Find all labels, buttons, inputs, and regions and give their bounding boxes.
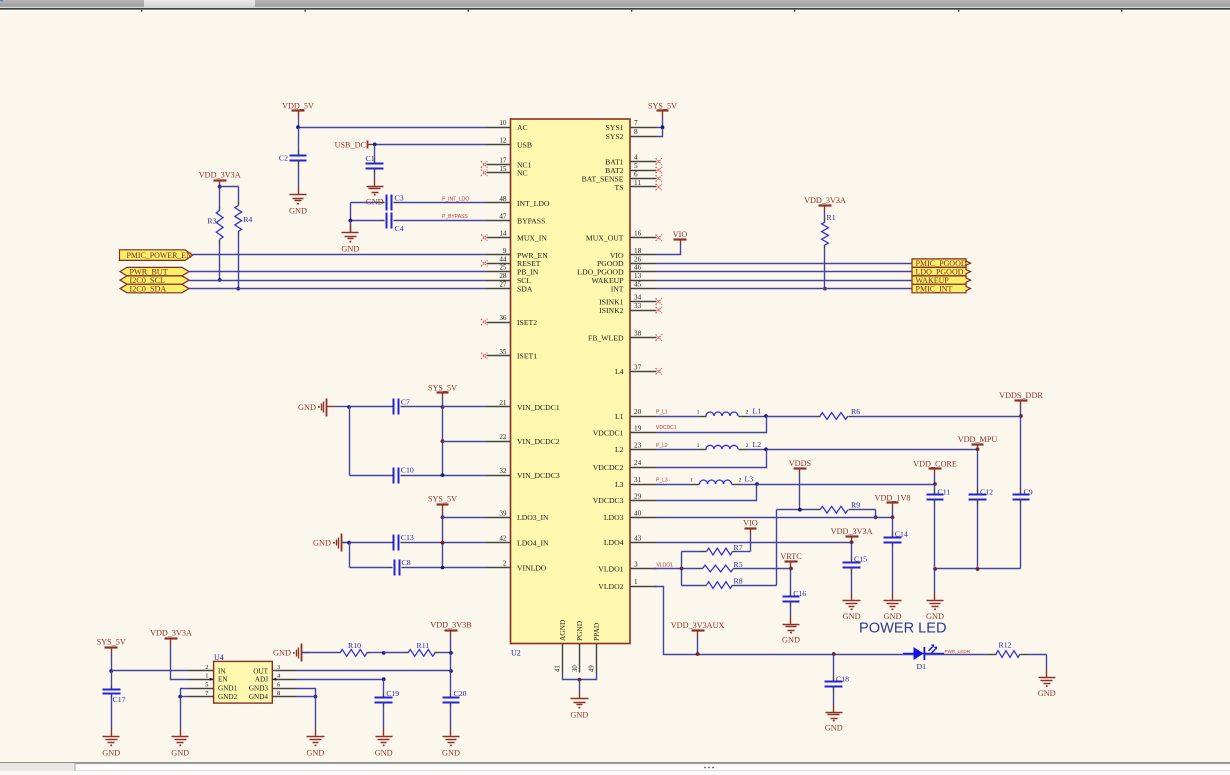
svg-text:C14: C14 <box>895 529 908 538</box>
capacitor C16 <box>783 569 807 617</box>
svg-text:AC: AC <box>517 123 528 132</box>
svg-text:VDCDC3: VDCDC3 <box>593 496 624 505</box>
svg-text:C12: C12 <box>980 487 993 496</box>
svg-text:VIN_DCDC2: VIN_DCDC2 <box>517 437 560 446</box>
svg-text:17: 17 <box>499 157 507 165</box>
wire WAKEUP to port <box>657 280 913 282</box>
svg-text:L2: L2 <box>753 440 762 449</box>
svg-text:L1: L1 <box>753 407 762 416</box>
svg-text:GND: GND <box>570 711 588 720</box>
svg-text:VDD_3V3B: VDD_3V3B <box>430 621 472 630</box>
svg-text:1: 1 <box>697 410 700 416</box>
net label P_BYPASS <box>442 214 468 220</box>
svg-text:USB: USB <box>517 140 532 149</box>
resistor R1 <box>822 212 836 289</box>
ground under C20 <box>442 729 460 758</box>
svg-text:C20: C20 <box>454 689 467 698</box>
resistor R5 <box>682 560 791 572</box>
U2 bottom pins AGND PGND PPAD <box>555 619 601 673</box>
ground under C15 <box>843 593 861 622</box>
wire L3 to VDD_CORE <box>757 484 935 486</box>
wire R9 to R8 vertical <box>776 510 778 586</box>
svg-text:P_BYPASS: P_BYPASS <box>442 214 468 220</box>
node junction R3/SCL <box>218 278 222 282</box>
wire PGOOD to port <box>657 263 913 265</box>
svg-text:L1: L1 <box>615 412 624 421</box>
inductor L3 <box>657 475 757 485</box>
svg-text:ISET2: ISET2 <box>517 318 537 327</box>
power VDD_3V3A bottom <box>150 629 192 680</box>
power VDD_1V8 <box>875 493 911 519</box>
resistor R4 <box>220 187 253 289</box>
svg-text:LDO3: LDO3 <box>604 513 624 522</box>
svg-text:15: 15 <box>499 165 507 173</box>
power VDD_3V3A mid <box>831 527 873 544</box>
ground under C3/C4 <box>341 221 359 254</box>
power VDD_5V <box>282 101 314 127</box>
svg-text:VLDO2: VLDO2 <box>598 582 623 591</box>
svg-text:1: 1 <box>690 478 693 484</box>
svg-text:C7: C7 <box>401 398 410 407</box>
svg-text:C11: C11 <box>938 487 951 496</box>
power VDDS <box>789 459 812 510</box>
wire VLDO2 rail <box>655 587 915 655</box>
wire SYS1/SYS2 <box>657 125 665 136</box>
power VDD_CORE <box>913 459 957 486</box>
net label P_L1 <box>656 410 668 416</box>
svg-text:LDO4: LDO4 <box>604 538 624 547</box>
port PMIC_INT <box>912 284 971 293</box>
svg-text:AGND: AGND <box>558 619 567 641</box>
wire to LDO3_IN <box>443 517 487 519</box>
svg-text:47: 47 <box>499 213 507 221</box>
power VDD_3V3AUX <box>671 621 725 656</box>
svg-text:29: 29 <box>634 492 642 500</box>
node junction USB/C1 <box>373 143 377 147</box>
resistor R8 <box>682 577 777 589</box>
power SYS_5V mid upper <box>428 383 457 406</box>
svg-text:1: 1 <box>634 578 638 586</box>
svg-text:27: 27 <box>499 281 507 289</box>
power SYS_5V top <box>648 101 677 127</box>
svg-text:6: 6 <box>634 170 638 178</box>
ground under C17 <box>102 729 120 758</box>
port WAKEUP <box>912 276 971 285</box>
port LDO_PGOOD <box>912 267 971 276</box>
capacitor C14 <box>884 518 908 593</box>
svg-text:GND: GND <box>442 748 460 757</box>
ground flag at R10 <box>273 644 336 662</box>
wire ADJ rail <box>297 677 386 681</box>
svg-text:SYS_5V: SYS_5V <box>97 638 126 647</box>
svg-text:26: 26 <box>634 255 642 263</box>
capacitor C19 <box>375 680 400 729</box>
svg-text:PMIC_INT: PMIC_INT <box>916 285 953 294</box>
ground under C19 <box>375 729 393 758</box>
svg-text:5: 5 <box>205 681 208 688</box>
svg-text:2: 2 <box>503 560 507 568</box>
svg-text:1: 1 <box>205 672 208 679</box>
svg-text:23: 23 <box>634 441 642 449</box>
ground flag at C13 <box>313 534 351 552</box>
svg-text:ISINK2: ISINK2 <box>599 306 623 315</box>
svg-text:IN: IN <box>218 668 226 676</box>
svg-text:L3: L3 <box>745 475 754 484</box>
wire R9 corner to LDO3 <box>874 510 878 520</box>
svg-text:44: 44 <box>499 255 507 263</box>
svg-text:30: 30 <box>572 665 579 672</box>
wire I2C0_SCL to SCL <box>189 280 487 282</box>
svg-text:INT: INT <box>611 285 624 294</box>
svg-text:GND: GND <box>1038 689 1056 698</box>
svg-text:2: 2 <box>205 664 208 671</box>
svg-text:45: 45 <box>634 281 642 289</box>
port I2C0_SDA <box>120 284 189 293</box>
port I2C0_SCL <box>120 276 189 285</box>
power SYS_5V bottom left <box>97 638 126 673</box>
svg-text:P_L1: P_L1 <box>656 410 668 416</box>
power VDD_MPU <box>958 435 998 451</box>
svg-text:C18: C18 <box>836 674 849 683</box>
svg-text:2: 2 <box>746 443 749 449</box>
svg-text:14: 14 <box>499 230 507 238</box>
capacitor C18 <box>825 652 850 704</box>
svg-text:VIN_DCDC1: VIN_DCDC1 <box>517 403 560 412</box>
svg-text:VDCDC1: VDCDC1 <box>593 428 624 437</box>
svg-text:2: 2 <box>739 478 742 484</box>
top scrollbar <box>0 0 1230 12</box>
svg-text:33: 33 <box>634 302 642 310</box>
node junction L2 out <box>764 447 768 451</box>
LED D1 <box>903 644 944 671</box>
svg-text:VDD_5V: VDD_5V <box>282 101 314 110</box>
wire VDCDC3 feedback <box>657 485 757 501</box>
svg-text:C19: C19 <box>386 689 399 698</box>
svg-text:ISET1: ISET1 <box>517 352 537 361</box>
svg-text:L3: L3 <box>615 480 624 489</box>
ground under U2 <box>570 691 588 720</box>
wire INT to port <box>657 288 913 290</box>
svg-text:34: 34 <box>634 294 642 302</box>
power SYS_5V mid lower <box>428 495 457 518</box>
wire LDO3 pin40 <box>657 517 893 519</box>
svg-text:ADJ: ADJ <box>255 676 268 684</box>
svg-text:R3: R3 <box>207 216 216 225</box>
capacitor C3 <box>351 193 487 210</box>
wire U4 GND1/GND2 <box>178 689 188 729</box>
svg-text:41: 41 <box>555 665 562 672</box>
capacitor C9 <box>1013 417 1033 569</box>
svg-text:SYS_5V: SYS_5V <box>428 495 457 504</box>
svg-text:C3: C3 <box>395 193 404 202</box>
svg-text:GND: GND <box>306 748 324 757</box>
svg-text:BYPASS: BYPASS <box>517 216 545 225</box>
wire SYS_5V vertical upper <box>442 407 444 476</box>
svg-text:R9: R9 <box>851 501 860 510</box>
svg-text:PPAD: PPAD <box>592 622 601 641</box>
svg-text:37: 37 <box>634 363 642 371</box>
svg-text:PMIC_POWER_EN: PMIC_POWER_EN <box>127 251 193 260</box>
wire VDCDC2 feedback <box>657 450 767 468</box>
svg-text:C15: C15 <box>854 554 867 563</box>
svg-text:18: 18 <box>634 247 642 255</box>
svg-text:VDDS: VDDS <box>789 459 812 468</box>
ground under U4 left <box>171 729 189 758</box>
svg-text:LDO3_IN: LDO3_IN <box>517 513 549 522</box>
svg-text:GND: GND <box>298 403 316 412</box>
net label PWR_LEDR <box>945 649 971 654</box>
resistor R6 <box>767 407 1021 419</box>
svg-text:VDD_CORE: VDD_CORE <box>913 459 957 468</box>
svg-text:PGND: PGND <box>575 620 584 641</box>
svg-text:L4: L4 <box>615 367 624 376</box>
ground flag at C7 <box>298 399 351 417</box>
node junction R7/R5/R8 left <box>680 552 684 586</box>
svg-text:GND: GND <box>102 748 120 757</box>
regulator U4 body <box>214 653 273 703</box>
svg-text:VDD_3V3A: VDD_3V3A <box>804 196 846 205</box>
svg-text:TS: TS <box>615 183 624 192</box>
svg-text:C1: C1 <box>366 154 375 163</box>
svg-text:MUX_OUT: MUX_OUT <box>586 234 624 243</box>
svg-text:P_INT_LDO: P_INT_LDO <box>442 197 469 203</box>
ground under C1 <box>366 179 384 207</box>
svg-text:2: 2 <box>746 410 749 416</box>
wire OUT rail <box>297 669 453 673</box>
svg-text:R11: R11 <box>417 641 430 650</box>
svg-text:GND: GND <box>782 636 800 645</box>
wire U2 ground pins <box>563 673 597 691</box>
svg-text:R6: R6 <box>851 407 860 416</box>
svg-text:R7: R7 <box>734 543 743 552</box>
capacitor C13 <box>350 533 487 550</box>
net label P_INT_LDO <box>442 197 469 203</box>
node junction VDD_5V/AC <box>296 125 300 129</box>
svg-text:SYS_5V: SYS_5V <box>428 383 457 392</box>
capacitor C7 <box>350 398 443 415</box>
svg-text:R1: R1 <box>827 213 836 222</box>
net label P_L3 <box>656 478 668 484</box>
node junction SYS_5V/C7 <box>441 405 445 409</box>
svg-text:EN: EN <box>218 676 228 684</box>
capacitor C8 <box>350 558 487 576</box>
svg-text:SDA: SDA <box>517 285 533 294</box>
svg-text:31: 31 <box>634 476 642 484</box>
node junction L1 out <box>764 414 768 418</box>
wire VDCDC1 feedback <box>657 417 767 433</box>
svg-text:MUX_IN: MUX_IN <box>517 234 547 243</box>
ground under C16 <box>782 617 800 645</box>
power VRTC <box>780 552 802 570</box>
svg-text:20: 20 <box>634 408 642 416</box>
svg-text:VLDO1: VLDO1 <box>657 562 674 568</box>
capacitor C4 <box>351 213 487 233</box>
svg-text:C8: C8 <box>402 558 411 567</box>
node junction L3 out <box>755 482 759 486</box>
power VIO right <box>657 230 688 255</box>
svg-text:16: 16 <box>634 230 642 238</box>
svg-text:3: 3 <box>277 664 280 671</box>
U2 right pins with numbers and names <box>577 119 662 591</box>
wire to VIN_DCDC1 <box>443 406 487 408</box>
svg-text:24: 24 <box>634 459 642 467</box>
svg-text:22: 22 <box>499 433 507 441</box>
svg-text:SYS_5V: SYS_5V <box>648 101 677 110</box>
svg-text:GND: GND <box>843 612 861 621</box>
ground under R12 <box>1038 655 1056 699</box>
svg-text:SYS1: SYS1 <box>606 123 624 132</box>
wire capacitor ground rail <box>933 567 1020 571</box>
svg-text:VIO: VIO <box>743 518 758 527</box>
capacitor C1 <box>366 145 384 179</box>
svg-text:7: 7 <box>634 119 638 127</box>
ground under C18 <box>825 705 843 733</box>
svg-text:P_L2: P_L2 <box>656 443 668 449</box>
svg-text:38: 38 <box>634 330 642 338</box>
port PMIC_POWER_EN <box>120 250 193 261</box>
svg-text:1: 1 <box>697 443 700 449</box>
power VDDS_DDR <box>999 391 1043 418</box>
svg-text:21: 21 <box>499 399 507 407</box>
svg-text:C17: C17 <box>113 695 126 704</box>
svg-text:C4: C4 <box>395 224 404 233</box>
svg-text:GND: GND <box>289 207 307 216</box>
svg-text:U2: U2 <box>511 649 521 658</box>
svg-text:GND: GND <box>273 649 291 658</box>
wire to VIN_DCDC2 <box>443 441 487 443</box>
svg-text:GND2: GND2 <box>218 693 238 701</box>
resistor R3 <box>207 187 223 281</box>
svg-text:9: 9 <box>503 247 507 255</box>
node junction R10/R11 <box>382 651 386 655</box>
svg-text:I2C0_SDA: I2C0_SDA <box>130 285 167 294</box>
svg-text:PWR_LEDR: PWR_LEDR <box>945 649 971 654</box>
node junction R1/INT <box>823 287 827 291</box>
svg-text:NC: NC <box>517 169 528 178</box>
capacitor C10 <box>350 466 487 484</box>
node junction R4/SDA <box>236 287 240 291</box>
node junction pin39 <box>441 515 445 519</box>
svg-text:5: 5 <box>634 162 638 170</box>
resistor R9 <box>777 501 876 513</box>
svg-text:43: 43 <box>634 534 642 542</box>
svg-text:10: 10 <box>499 119 507 127</box>
svg-text:P_L3: P_L3 <box>656 478 668 484</box>
svg-text:42: 42 <box>499 535 507 543</box>
svg-text:POWER LED: POWER LED <box>859 621 947 637</box>
svg-text:8: 8 <box>277 690 280 697</box>
svg-text:VINLDO: VINLDO <box>517 563 547 572</box>
svg-text:25: 25 <box>499 264 507 272</box>
resistor R12 <box>925 641 1047 658</box>
power port USB_DC <box>335 140 373 149</box>
svg-text:VDCDC1: VDCDC1 <box>656 425 677 431</box>
svg-text:L2: L2 <box>615 445 624 454</box>
capacitor C20 <box>443 671 467 729</box>
svg-text:GND: GND <box>825 724 843 733</box>
ground under C14 <box>884 593 902 622</box>
svg-text:C9: C9 <box>1024 487 1033 496</box>
inductor L2 <box>657 440 767 450</box>
svg-text:R5: R5 <box>734 560 743 569</box>
svg-text:VDD_MPU: VDD_MPU <box>958 435 998 444</box>
wire AC net to pin 10 <box>299 127 487 129</box>
ground under rail <box>926 569 944 622</box>
wire L2 to VDD_MPU <box>767 449 978 451</box>
svg-text:VDD_3V3A: VDD_3V3A <box>150 629 192 638</box>
power VIO mid <box>743 518 758 551</box>
svg-text:C13: C13 <box>401 533 414 542</box>
svg-text:46: 46 <box>634 264 642 272</box>
wire USB net to pin 12 <box>373 144 487 146</box>
svg-text:OUT: OUT <box>253 668 268 676</box>
svg-text:VDD_1V8: VDD_1V8 <box>875 493 911 502</box>
svg-text:13: 13 <box>634 272 642 280</box>
svg-text:3: 3 <box>634 561 638 569</box>
capacitor C2 <box>279 128 307 187</box>
svg-text:GND4: GND4 <box>249 693 269 701</box>
wire LDO4 pin43 <box>657 542 852 544</box>
port PWR_BUT <box>120 267 189 276</box>
U4 pins with numbers and names <box>189 664 297 701</box>
svg-text:C16: C16 <box>793 589 806 598</box>
capacitor C17 <box>103 671 126 729</box>
svg-text:35: 35 <box>499 348 507 356</box>
svg-text:VIO: VIO <box>673 230 688 239</box>
svg-text:36: 36 <box>499 314 507 322</box>
capacitor C11 <box>927 485 951 569</box>
bottom scrollbar <box>0 762 1230 775</box>
wire LDO_PGOOD to port <box>657 271 913 273</box>
wire I2C0_SDA to SDA <box>189 288 487 290</box>
resistor R11 <box>384 641 451 656</box>
wire U4 GND3/GND4 <box>297 689 318 729</box>
svg-text:VIN_DCDC3: VIN_DCDC3 <box>517 471 560 480</box>
svg-text:VDD_3V3A: VDD_3V3A <box>831 527 873 536</box>
svg-text:SYS2: SYS2 <box>606 132 624 141</box>
ground under C2 <box>289 187 307 216</box>
svg-text:GND: GND <box>375 748 393 757</box>
svg-text:4: 4 <box>634 154 638 162</box>
IC U2 PMIC body <box>511 119 631 658</box>
power VDD_3V3A left <box>199 171 241 189</box>
svg-text:GND: GND <box>171 748 189 757</box>
svg-text:GND3: GND3 <box>249 685 269 693</box>
svg-text:32: 32 <box>499 467 507 475</box>
svg-text:8: 8 <box>634 128 638 136</box>
svg-text:GND: GND <box>313 539 331 548</box>
svg-text:USB_DC: USB_DC <box>335 140 367 149</box>
svg-text:R10: R10 <box>348 641 361 650</box>
svg-text:VDD_3V3A: VDD_3V3A <box>199 171 241 180</box>
power VDD_3V3A with R1 <box>804 196 846 212</box>
svg-text:11: 11 <box>634 179 641 187</box>
wire VLDO1 pin3 <box>655 568 682 570</box>
svg-text:R4: R4 <box>243 215 252 224</box>
port PMIC_PGOOD <box>912 259 971 268</box>
svg-text:R8: R8 <box>734 577 743 586</box>
svg-text:12: 12 <box>499 136 507 144</box>
svg-text:VDD_3V3AUX: VDD_3V3AUX <box>671 621 725 630</box>
svg-text:VLDO1: VLDO1 <box>598 564 623 573</box>
svg-text:28: 28 <box>499 272 507 280</box>
power VDD_3V3B <box>430 621 472 671</box>
svg-text:VDCDC2: VDCDC2 <box>593 463 624 472</box>
svg-text:19: 19 <box>634 425 642 433</box>
wire PMIC_POWER_EN to PWR_EN <box>193 254 487 256</box>
svg-text:C2: C2 <box>279 154 288 163</box>
svg-text:40: 40 <box>634 509 642 517</box>
